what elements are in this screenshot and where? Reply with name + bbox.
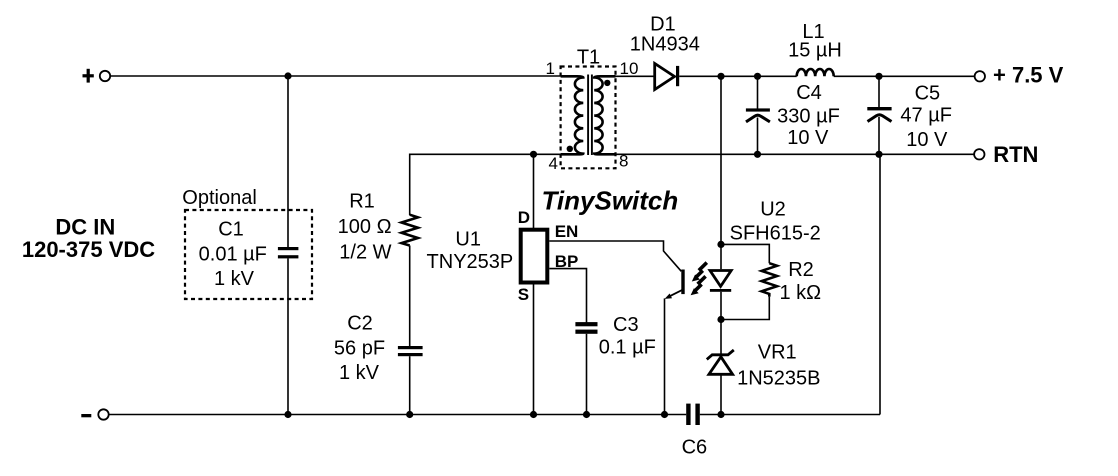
svg-text:10 V: 10 V [787, 127, 829, 149]
svg-text:1/2 W: 1/2 W [339, 242, 391, 264]
wire C1 drop [287, 76, 289, 248]
transformer T1 secondary winding [594, 76, 615, 154]
resistor R1 [402, 215, 418, 246]
op-amp U1 TNY253P body [521, 230, 548, 283]
svg-text:EN: EN [555, 222, 579, 241]
svg-text:1 kΩ: 1 kΩ [779, 282, 821, 304]
wire bottom rail [109, 414, 687, 416]
node junction R1/C2 bottom [406, 411, 413, 418]
capacitor C3 [575, 322, 597, 334]
wire VR1 top lead [720, 320, 722, 354]
node junction C5 top [875, 73, 882, 80]
svg-text:U2: U2 [760, 199, 786, 221]
svg-text:1 kV: 1 kV [214, 268, 255, 290]
node junction D pin [530, 151, 537, 158]
wire BP to C3 [549, 269, 586, 323]
svg-text:U1: U1 [455, 228, 481, 250]
node junction bottom C1 [284, 411, 291, 418]
wire LED bottom lead [720, 292, 722, 320]
transformer T1 dashed box [561, 67, 616, 169]
node junction VR1 bottom [717, 411, 724, 418]
node junction C4 bottom [754, 151, 761, 158]
svg-text:120-375 VDC: 120-375 VDC [22, 237, 155, 262]
svg-text:330 µF: 330 µF [777, 106, 840, 128]
svg-text:56 pF: 56 pF [334, 337, 385, 359]
label R2 [779, 259, 821, 304]
terminal + (DC input positive) [83, 69, 111, 83]
label VR1 [737, 341, 820, 389]
optocoupler light arrows [691, 263, 707, 296]
wire feedback drop [720, 76, 722, 244]
label U2 [730, 199, 821, 245]
capacitor C5 [867, 107, 891, 122]
transformer T1 primary winding [561, 76, 584, 154]
svg-text:0.1 µF: 0.1 µF [599, 337, 656, 359]
svg-text:T1: T1 [577, 47, 600, 69]
node junction LED top [717, 241, 724, 248]
label C5 [900, 83, 952, 151]
wire R1 top lead [409, 154, 411, 216]
wire L1 to output [834, 75, 975, 77]
svg-text:1: 1 [546, 59, 555, 78]
svg-text:C6: C6 [682, 437, 708, 459]
node junction C4 top [754, 73, 761, 80]
capacitor C2 [398, 346, 423, 356]
diode D1 [655, 64, 680, 90]
svg-text:1N5235B: 1N5235B [737, 368, 820, 390]
wire D1 to L1 [679, 75, 797, 77]
svg-text:D1: D1 [650, 13, 676, 35]
inductor L1 [797, 69, 834, 76]
label D1 [630, 13, 700, 55]
wire secondary bottom rail [616, 153, 975, 155]
node junction RTN [875, 151, 882, 158]
resistor R2 [762, 263, 777, 296]
svg-text:VR1: VR1 [758, 341, 797, 363]
optocoupler LED [710, 271, 731, 292]
svg-text:C1: C1 [218, 219, 244, 241]
dashed box C1 optional [185, 210, 312, 299]
capacitor C4 [746, 108, 770, 122]
wire C1 to bottom rail [287, 258, 289, 414]
wire C5 bottom lead [878, 117, 880, 154]
wire EN to optocoupler [549, 241, 681, 271]
svg-text:1N4934: 1N4934 [630, 33, 700, 55]
svg-text:TNY253P: TNY253P [427, 251, 514, 273]
wire LED top lead [720, 244, 722, 269]
wire C2 to bottom rail [409, 356, 411, 414]
terminal - (DC input negative) [81, 409, 108, 419]
wire VR1 bottom lead [720, 375, 722, 415]
wire D pin drop [533, 154, 535, 228]
transformer phase dot primary [567, 146, 573, 152]
label C2 [334, 313, 385, 385]
svg-text:C2: C2 [347, 313, 373, 335]
wire pin10 to D1 [616, 75, 656, 77]
svg-text:D: D [518, 208, 530, 227]
wire right riser [879, 154, 881, 414]
svg-text:+ 7.5 V: + 7.5 V [993, 62, 1064, 87]
wire C6 to corner [700, 414, 880, 416]
svg-text:S: S [518, 285, 529, 304]
wire C4 bottom lead [757, 118, 759, 155]
transformer T1 core [588, 75, 592, 156]
wire C5 top lead [878, 76, 880, 107]
label C3 [599, 314, 656, 359]
svg-text:C4: C4 [796, 82, 822, 104]
wire top rail [110, 75, 578, 77]
value label C1 [199, 219, 267, 290]
svg-text:SFH615-2: SFH615-2 [730, 223, 821, 245]
svg-text:10: 10 [620, 59, 639, 78]
svg-text:RTN: RTN [993, 142, 1038, 167]
svg-text:1 kV: 1 kV [339, 362, 380, 384]
node junction feedback tap [717, 73, 724, 80]
label DC IN [22, 214, 155, 261]
label U1 [427, 228, 514, 272]
node junction C3 bottom [583, 411, 590, 418]
terminal RTN [974, 142, 1038, 167]
capacitor C1 [278, 247, 299, 258]
svg-text:R2: R2 [788, 259, 814, 281]
label R1 [338, 191, 392, 264]
svg-text:DC IN: DC IN [55, 214, 115, 239]
wire C4 top lead [757, 76, 759, 109]
wire S pin to bottom rail [533, 284, 535, 414]
wire R1 to C2 [409, 246, 411, 347]
svg-text:4: 4 [549, 154, 558, 173]
wire C3 to bottom rail [586, 334, 588, 415]
transformer phase dot secondary [604, 80, 610, 86]
node junction top C1 [284, 72, 291, 79]
svg-text:100 Ω: 100 Ω [338, 216, 392, 238]
wire LED to R2 top [721, 244, 769, 263]
node junction LED bottom [717, 316, 724, 323]
svg-text:15 µH: 15 µH [788, 40, 842, 62]
svg-text:R1: R1 [349, 191, 375, 213]
wire mid rail primary [410, 153, 561, 155]
svg-text:C3: C3 [613, 314, 639, 336]
node junction S bottom [530, 411, 537, 418]
wire R2 bottom to LED bottom [721, 297, 769, 320]
label C4 [777, 82, 840, 149]
terminal +7.5V [975, 62, 1064, 87]
node junction opto emitter bottom [661, 411, 668, 418]
label L1 [788, 21, 842, 61]
svg-text:Optional: Optional [182, 187, 256, 209]
svg-text:10 V: 10 V [906, 129, 948, 151]
optocoupler U2 phototransistor [665, 270, 685, 415]
svg-text:C5: C5 [915, 83, 941, 105]
svg-text:TinySwitch: TinySwitch [542, 185, 679, 215]
capacitor C6 [686, 404, 700, 425]
svg-text:0.01 µF: 0.01 µF [199, 243, 267, 265]
svg-text:47 µF: 47 µF [900, 105, 952, 127]
zener diode VR1 [707, 350, 734, 374]
